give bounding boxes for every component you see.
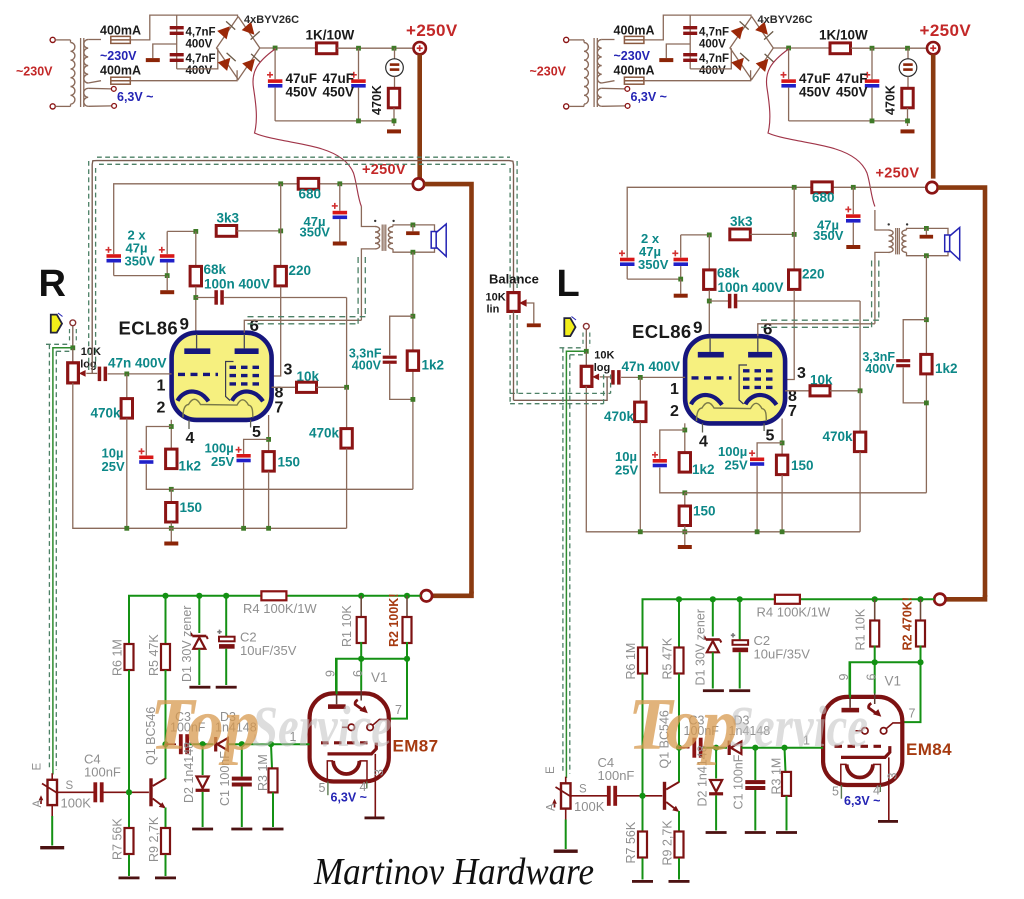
svg-text:470K: 470K xyxy=(884,85,898,115)
L-ch wire rail to 220 xyxy=(793,187,795,269)
R-ch PSU bridge rectifier 4xBYV26C xyxy=(217,17,261,80)
svg-text:R2 470K!: R2 470K! xyxy=(901,597,915,651)
L-ch PSU wire filter caps column xyxy=(689,15,691,69)
L-ch capacitor 10u 25V xyxy=(660,430,685,459)
L-ch resistor R5 47K xyxy=(675,648,684,674)
L-ch node cathode branch xyxy=(682,428,687,433)
L-ch resistor R6 1M xyxy=(638,648,647,674)
svg-text:~230V: ~230V xyxy=(16,65,53,79)
L-ch resistor R4 100K/1W xyxy=(775,595,800,604)
L-ch wire rail to C2 xyxy=(739,599,741,640)
svg-text:4,7nF: 4,7nF xyxy=(186,53,216,65)
R-ch node D2 branch xyxy=(200,741,206,747)
R-ch node grid xyxy=(124,372,129,377)
svg-text:log: log xyxy=(594,362,611,374)
R-ch node rail 470k-left xyxy=(124,526,129,531)
svg-text:400mA: 400mA xyxy=(100,64,141,78)
R-ch PSU node after 1K xyxy=(356,46,361,51)
L-ch wire 68k to pin9 xyxy=(708,290,710,336)
R-ch resistor 150 pentode xyxy=(263,452,274,472)
R-ch wire pin8 to 10k xyxy=(272,386,297,388)
svg-text:2: 2 xyxy=(670,403,679,420)
watermark TopService right xyxy=(628,684,868,766)
svg-text:lin: lin xyxy=(487,304,500,316)
R-ch wire base node to R7 xyxy=(128,792,130,827)
R-ch wire 220 to pin3 xyxy=(272,287,281,376)
svg-text:+250V: +250V xyxy=(920,21,972,40)
R-ch wire pin3 to ground xyxy=(374,754,376,817)
R-ch resistor 470k pentode grid xyxy=(346,387,348,428)
svg-text:10K: 10K xyxy=(486,292,506,304)
L-ch PSU hand-drawn wire to output transformer xyxy=(766,49,874,207)
L-ch wire secondary top xyxy=(907,228,949,235)
L-ch wire 100n to 10k node xyxy=(859,301,861,391)
R-ch resistor 3k3 xyxy=(216,226,237,237)
svg-text:47n 400V: 47n 400V xyxy=(622,359,681,374)
svg-text:680: 680 xyxy=(812,190,835,205)
R-ch tube EM87 electrodes xyxy=(321,659,388,781)
R-ch PSU fuse F2 400mA xyxy=(111,77,131,84)
L-ch node 3k3 left xyxy=(707,233,712,238)
L-ch PSU node after 1K xyxy=(870,46,875,51)
L-ch wire pin7 cathode xyxy=(781,419,783,455)
svg-text:Service: Service xyxy=(252,694,392,759)
R-ch node 10k out xyxy=(344,385,349,390)
svg-text:4,7nF: 4,7nF xyxy=(699,27,729,39)
R-ch resistor R3 1M xyxy=(269,768,278,792)
R-ch wire pin7 cathode xyxy=(268,415,270,451)
L-ch resistor 10k xyxy=(810,386,830,396)
R-ch wire 100n to 10k node xyxy=(346,298,348,388)
R-ch PSU terminal +250V xyxy=(414,42,426,54)
svg-text:350V: 350V xyxy=(300,224,331,239)
L-ch wire input to pot xyxy=(585,351,587,366)
L-ch shield dashes pin6 run xyxy=(761,319,879,321)
L-ch PSU wire fuse2 to bridge bottom xyxy=(644,70,751,80)
R-ch node pin9 coupling xyxy=(193,295,198,300)
L-ch node rail D1 xyxy=(710,596,716,602)
L-ch wire C3 to D3 xyxy=(703,747,727,749)
L-ch ground bar D1 xyxy=(703,689,724,692)
L-ch node rail R2 xyxy=(917,596,923,602)
L-ch wire pin3 to ground xyxy=(888,757,890,820)
R-ch node collector C3 xyxy=(162,741,168,747)
svg-text:D1 30V zener: D1 30V zener xyxy=(180,606,194,682)
svg-text:6,3V ~: 6,3V ~ xyxy=(117,90,154,104)
svg-text:R7 56K: R7 56K xyxy=(111,818,125,860)
svg-text:10K: 10K xyxy=(81,346,101,358)
svg-text:R1 10K: R1 10K xyxy=(340,605,354,647)
svg-text:R6 1M: R6 1M xyxy=(624,643,638,680)
R-ch PSU resistor 470K bleeder xyxy=(394,76,396,88)
L-ch PSU mains transformer TR xyxy=(564,37,630,109)
L-ch resistor R3 1M xyxy=(782,772,791,796)
L-ch resistor R7 56K xyxy=(638,832,647,858)
L-ch wire rail to R2 xyxy=(920,599,922,621)
R-ch wire D1 to ground xyxy=(198,649,200,685)
svg-text:3: 3 xyxy=(886,773,900,780)
svg-text:9: 9 xyxy=(324,670,338,677)
L-ch resistor R1 10K xyxy=(870,621,879,647)
svg-text:ECL86: ECL86 xyxy=(119,318,179,339)
R-ch PSU capacitor 4,7nF lower xyxy=(170,53,184,56)
R-ch PSU fuse F1 400mA xyxy=(111,36,131,43)
svg-text:E: E xyxy=(32,763,44,771)
svg-text:100nF: 100nF xyxy=(598,768,635,783)
R-ch resistor 1k2 feedback xyxy=(407,351,418,371)
L-ch node input xyxy=(584,349,589,354)
svg-text:1k2: 1k2 xyxy=(179,459,202,474)
L-ch ground bar C1 xyxy=(745,831,766,834)
L-ch PSU wire 1K to +250V terminal xyxy=(851,47,927,49)
svg-text:5: 5 xyxy=(832,785,839,799)
L-ch green rail 2 xyxy=(850,662,921,722)
R-ch wire 10k to node xyxy=(317,386,347,388)
R-ch node C1 xyxy=(239,741,245,747)
L-ch wire C1 branch xyxy=(754,748,756,780)
svg-text:Service: Service xyxy=(728,694,868,759)
svg-text:~230V: ~230V xyxy=(530,65,567,79)
L-ch resistor R9 2,7K xyxy=(675,832,684,858)
svg-text:68k: 68k xyxy=(204,262,227,277)
R-ch transistor Q1 BC546 xyxy=(149,778,165,808)
L-ch diode D2 1n4148 xyxy=(709,780,723,795)
R-ch node R3 xyxy=(268,741,274,747)
L-ch ground rail bottom xyxy=(640,531,860,533)
L-ch resistor 150 pentode xyxy=(776,455,787,475)
L-ch capacitor C1 100nF xyxy=(745,780,765,784)
svg-text:1k2: 1k2 xyxy=(422,358,445,373)
svg-text:400V: 400V xyxy=(699,65,726,77)
L-ch node feedback top xyxy=(924,317,929,322)
R-ch input jack xyxy=(70,320,76,326)
svg-text:R5 47K: R5 47K xyxy=(661,637,675,679)
svg-text:3: 3 xyxy=(372,769,386,776)
R-ch capacitor C4 100nF xyxy=(93,782,97,802)
wire balance bottom leg xyxy=(513,311,515,400)
L-ch diode D3 1n4148 xyxy=(728,741,742,756)
R-ch node rail R2 xyxy=(404,593,410,599)
R-ch PSU resistor 1K/10W xyxy=(316,43,337,54)
L-ch PSU terminal +250V xyxy=(927,42,939,54)
R-ch thick wire ring to EM section xyxy=(424,184,471,593)
R-ch resistor R9 2,7K xyxy=(161,828,170,854)
L-ch ground bar secondary xyxy=(920,235,934,239)
shield dashes balance bottom xyxy=(509,315,511,404)
svg-text:400V: 400V xyxy=(186,39,213,51)
L-ch node C1 xyxy=(752,745,758,751)
R-ch wire C4 to base xyxy=(104,791,149,793)
L-ch green supply rail xyxy=(643,599,775,647)
svg-text:5: 5 xyxy=(766,428,775,445)
L-ch wire emitter to R9 xyxy=(678,811,680,831)
R-ch ground bar pot xyxy=(40,846,64,849)
R-ch PSU ground bar PSU xyxy=(387,129,401,133)
svg-text:+250V: +250V xyxy=(362,162,406,178)
svg-text:68k: 68k xyxy=(717,266,740,281)
R-ch PSU wire caps to bridge left xyxy=(177,48,218,69)
L-ch node 10k out xyxy=(858,388,863,393)
L-ch wire pin2 cathode xyxy=(684,423,686,452)
L-ch node feedback bottom xyxy=(924,401,929,406)
R-ch node ground rail xyxy=(169,526,174,531)
R-ch resistor 150 triode xyxy=(170,489,172,502)
L-ch wire D2 branch xyxy=(715,748,717,779)
R-ch diode D2 1n4148 xyxy=(196,777,210,792)
R-ch resistor 680 xyxy=(298,178,319,189)
svg-text:5: 5 xyxy=(252,424,261,441)
svg-text:1K/10W: 1K/10W xyxy=(306,28,355,43)
R-ch potentiometer 100K xyxy=(51,773,53,780)
L-ch wire rail to R5 xyxy=(678,599,680,647)
svg-text:Balance: Balance xyxy=(489,272,539,287)
R-ch node cathode branch xyxy=(169,424,174,429)
L-ch wire pin6 to OPT xyxy=(758,324,875,336)
R-ch resistor R7 56K xyxy=(125,828,134,854)
R-ch node 3k3 right xyxy=(278,229,283,234)
L-ch node ground rail xyxy=(682,529,687,534)
R-ch PSU wire filter caps column xyxy=(176,15,178,69)
svg-text:400mA: 400mA xyxy=(100,24,141,38)
R-ch speaker xyxy=(431,224,446,256)
L-ch wire pin8 to 10k xyxy=(785,390,810,392)
L-ch node pin9 coupling xyxy=(707,299,712,304)
R-ch PSU thick wire +250V down xyxy=(417,54,422,178)
R-ch PSU hand-drawn wire to output transformer xyxy=(253,49,361,207)
L-ch wire R7 ground xyxy=(642,858,644,879)
L-ch node rail2 R2 xyxy=(917,659,923,665)
R-ch node rail2 R2 xyxy=(404,656,410,662)
L-ch PSU capacitor 47uF first xyxy=(788,48,790,79)
svg-text:R9 2,7K: R9 2,7K xyxy=(661,820,675,866)
R-ch shield dashes jack xyxy=(69,329,71,344)
svg-text:R9 2,7K: R9 2,7K xyxy=(147,816,161,862)
R-ch resistor 68k xyxy=(190,266,201,286)
R-ch PSU capacitor 4,7nF upper xyxy=(170,26,184,29)
R-ch top +250V rail xyxy=(114,184,413,254)
L-ch resistor 1k2 cathode xyxy=(679,453,690,473)
R-ch PSU wire fuse2 to bridge bottom xyxy=(130,70,237,80)
svg-text:10uF/35V: 10uF/35V xyxy=(240,643,297,658)
R-ch resistor R6 1M xyxy=(125,644,134,670)
L-ch pin4 stub V1 xyxy=(879,785,881,792)
L-ch zener D1 30V xyxy=(704,637,721,653)
R-ch ground bar D2 xyxy=(192,828,213,831)
R-ch node secondary bottom xyxy=(411,250,416,255)
L-ch PSU ground stub at caps xyxy=(666,44,690,58)
R-ch pin5 heater stub xyxy=(250,420,252,428)
svg-text:1: 1 xyxy=(670,381,679,398)
L-ch pin4 heater stub xyxy=(702,423,704,432)
R-ch zener D1 30V xyxy=(191,633,208,649)
L-ch wire 3k3 node to 68k xyxy=(708,235,710,269)
watermark TopService left xyxy=(150,684,392,766)
L-ch node 2x47u junction xyxy=(678,277,683,282)
L-ch ground bar pot xyxy=(554,850,578,853)
L-ch node rail2 pin6 xyxy=(872,659,878,665)
R-ch wire R5 to collector xyxy=(165,670,167,779)
L-ch node rail C2 xyxy=(737,596,743,602)
L-ch green link input to volume pot xyxy=(566,351,586,778)
L-ch wire R2 to node xyxy=(920,646,922,663)
R-ch capacitor 47u 350V xyxy=(339,184,341,211)
L-ch wire base node to R7 xyxy=(642,796,644,831)
R-ch wire feedback vertical xyxy=(412,252,414,489)
L-ch resistor 150 triode xyxy=(684,493,686,506)
svg-text:6,3V ~: 6,3V ~ xyxy=(331,791,368,805)
R-ch ground bar R3 xyxy=(263,828,284,831)
L-ch wire C2 to ground xyxy=(739,652,741,688)
L-ch capacitor 3,3nF xyxy=(903,320,926,359)
R-ch ground bar 2x47u xyxy=(160,290,174,294)
L-ch PSU node at 470K top xyxy=(905,46,910,51)
L-ch ground bar R7 xyxy=(632,880,653,883)
R-ch PSU mains transformer TR xyxy=(50,37,116,109)
L-ch wire pot wiper to C4 xyxy=(571,795,608,797)
R-ch diode D3 1n4148 xyxy=(214,737,228,752)
svg-text:+250V: +250V xyxy=(876,166,920,182)
L-ch shield dashes volume link xyxy=(560,347,584,349)
svg-text:350V: 350V xyxy=(125,254,156,269)
L-ch pin5 stub V1 xyxy=(840,785,842,799)
svg-text:6,3V ~: 6,3V ~ xyxy=(844,794,881,808)
svg-text:7: 7 xyxy=(788,403,797,420)
R-ch wire emitter to R9 xyxy=(165,808,167,828)
R-ch resistor R2 xyxy=(403,617,412,643)
svg-text:R2 100K!: R2 100K! xyxy=(387,594,401,648)
svg-text:150: 150 xyxy=(693,504,716,519)
R-ch wire 2x47u to 3k3 xyxy=(167,230,196,232)
L-ch resistor 220 xyxy=(789,270,800,290)
L-ch wire R9 ground xyxy=(678,858,680,879)
R-ch node 3k3 left xyxy=(193,229,198,234)
R-ch node pentode cathode xyxy=(266,437,271,442)
L-ch potentiometer 10K log xyxy=(581,366,592,386)
svg-text:9: 9 xyxy=(180,315,189,334)
svg-text:25V: 25V xyxy=(725,458,748,473)
R-ch wire pot wiper to C4 xyxy=(57,791,94,793)
R-ch capacitor C1 100nF xyxy=(232,777,252,781)
svg-text:470K: 470K xyxy=(370,85,384,115)
R-ch resistor R4 100K/1W xyxy=(261,591,286,600)
svg-text:2: 2 xyxy=(157,400,166,417)
L-ch wire feedback vertical xyxy=(925,256,927,493)
R-ch node feedback top xyxy=(411,314,416,319)
R-ch resistor R1 10K xyxy=(357,617,366,643)
svg-text:400mA: 400mA xyxy=(614,64,655,78)
R-ch wire C3 to D3 xyxy=(190,743,214,745)
svg-text:47n 400V: 47n 400V xyxy=(108,355,167,370)
R-ch wire 3k3 to 220 column xyxy=(237,230,281,232)
svg-text:25V: 25V xyxy=(615,463,638,478)
svg-text:4: 4 xyxy=(699,434,708,451)
L-ch ground bar R3 xyxy=(776,831,797,834)
R-ch ground bar rail xyxy=(164,542,178,546)
L-ch capacitor C3 100nF xyxy=(679,747,690,749)
svg-text:~230V: ~230V xyxy=(100,49,137,63)
L-ch thick wire ring to EM section xyxy=(938,188,985,597)
L-ch top +250V rail xyxy=(627,187,926,257)
R-ch wire pot wiper xyxy=(86,372,97,374)
svg-text:400V: 400V xyxy=(699,39,726,51)
L-ch PSU capacitor 4,7nF upper xyxy=(683,26,697,29)
R-ch wire pin2 cathode xyxy=(170,420,172,449)
R-ch node base xyxy=(126,789,132,795)
svg-text:3k3: 3k3 xyxy=(730,214,753,229)
L-ch wire 220 to pin3 xyxy=(785,290,794,379)
L-ch PSU resistor 1K/10W xyxy=(830,43,851,54)
L-ch wire R3 branch xyxy=(785,748,786,772)
R-ch ring node +250V xyxy=(413,178,424,189)
L-ch capacitor 47u 350V xyxy=(852,187,854,214)
R-ch node rail R1 xyxy=(358,593,364,599)
svg-text:6: 6 xyxy=(763,319,772,338)
svg-text:150: 150 xyxy=(278,455,301,470)
L-ch wire D1 to ground xyxy=(712,652,714,688)
R-ch tube EM87 envelope xyxy=(310,693,389,781)
L-ch resistor 3k3 xyxy=(730,229,751,240)
L-ch PSU ground bar PSU xyxy=(901,129,915,133)
L-ch resistor 680 xyxy=(812,182,833,193)
svg-text:3k3: 3k3 xyxy=(217,211,240,226)
R-ch wire input to pot xyxy=(72,348,74,363)
svg-text:450V: 450V xyxy=(323,85,355,100)
svg-text:6: 6 xyxy=(865,674,879,681)
L-ch wire R1 to pin6 column xyxy=(874,646,876,694)
L-ch tube EM84 envelope xyxy=(823,697,902,785)
L-ch PSU ground bar at caps xyxy=(659,58,673,62)
R-ch ground stub 2x47u xyxy=(166,276,168,291)
svg-text:ECL86: ECL86 xyxy=(632,321,692,342)
R-ch wire rail to R5 xyxy=(165,596,167,644)
svg-text:350V: 350V xyxy=(813,228,844,243)
svg-text:A: A xyxy=(32,800,44,808)
R-ch wire C1 branch xyxy=(241,744,243,776)
R-ch wire R1 to pin6 column xyxy=(360,642,362,690)
R-ch pin4 heater stub xyxy=(188,420,190,429)
R-ch wire rail to R2 xyxy=(406,596,408,618)
L-ch capacitor 100u 25V xyxy=(757,443,782,458)
R-ch wire R7 ground xyxy=(128,855,130,876)
R-ch capacitor 2x47u right xyxy=(166,231,168,254)
svg-text:V1: V1 xyxy=(885,674,902,689)
R-ch green supply rail xyxy=(129,596,261,644)
R-ch node rail R5 xyxy=(162,593,168,599)
svg-text:~230V: ~230V xyxy=(614,49,651,63)
L-ch PSU capacitor 47uF second xyxy=(871,48,873,79)
L-ch wire between 2x47u xyxy=(627,278,681,280)
svg-text:L: L xyxy=(557,263,580,305)
svg-text:+250V: +250V xyxy=(406,21,458,40)
R-ch capacitor 47n xyxy=(98,367,102,382)
svg-text:7: 7 xyxy=(275,400,284,417)
L-ch node rail R5 xyxy=(676,596,682,602)
L-ch potentiometer 100K xyxy=(565,777,567,784)
R-ch wire R6 to base node xyxy=(128,670,130,792)
svg-text:150: 150 xyxy=(791,458,814,473)
svg-text:E: E xyxy=(545,766,557,774)
L-ch node grid xyxy=(638,375,643,380)
R-ch ground bar secondary xyxy=(406,231,420,235)
svg-text:680: 680 xyxy=(299,187,322,202)
R-ch wire D3 to pin1 xyxy=(228,743,310,745)
svg-text:Top: Top xyxy=(150,684,260,766)
L-ch node collector C3 xyxy=(676,745,682,751)
R-ch wire C2 to ground xyxy=(225,649,227,685)
L-ch node 3k3 right xyxy=(792,232,797,237)
L-ch input arrow icon xyxy=(564,318,575,336)
svg-text:R4 100K/1W: R4 100K/1W xyxy=(243,601,317,616)
